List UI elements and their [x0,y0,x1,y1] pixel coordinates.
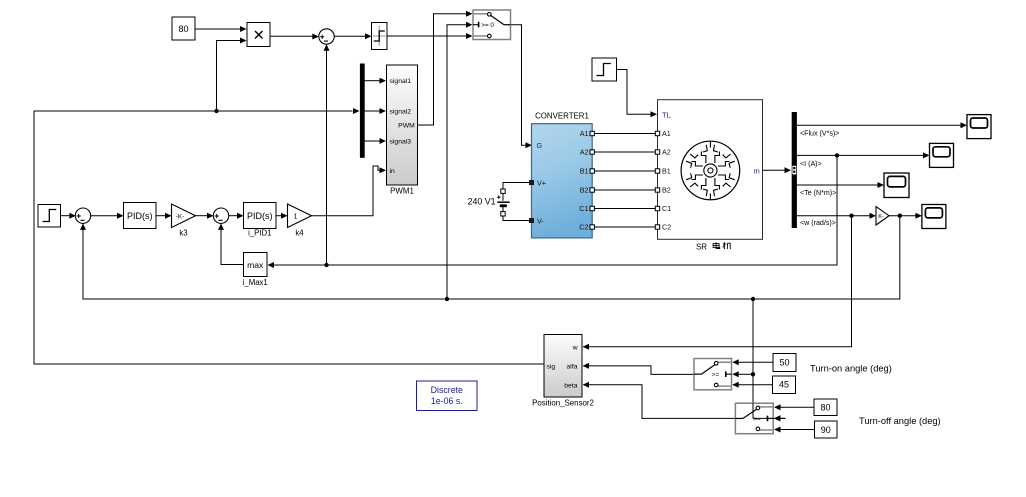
dc voltage source 240 V1 [468,189,510,216]
wire demux out y80.7 to PWM1 [365,78,386,84]
svg-text:A1: A1 [662,129,671,138]
svg-text:80: 80 [820,403,830,413]
svg-text:V-: V- [537,217,544,226]
wire battery plus to converter V+ [503,183,529,190]
svg-text:B2: B2 [580,186,589,195]
wire motor m to bus selector [763,167,792,173]
gain k3 [172,204,196,238]
svg-text:K-: K- [878,214,884,220]
svg-text:B1: B1 [662,167,671,176]
wire turn-on switch to sensor alfa [583,363,695,375]
annotation Turn-off angle [859,416,941,426]
svg-text:>=: >= [712,372,720,379]
svg-text:CONVERTER1: CONVERTER1 [535,112,589,121]
svg-text:alfa: alfa [567,363,578,370]
annotation Turn-on angle [810,363,892,373]
wire sum S2 to PID1 [91,213,124,219]
svg-text:B2: B2 [662,186,671,195]
wire step Step1 to sum S2 [61,213,76,219]
svg-text:beta: beta [564,382,577,389]
wire relay to switch SW0 input 3 [387,33,473,39]
label Te [800,189,836,197]
svg-text:w: w [572,345,578,352]
svg-text:45: 45 [779,380,789,390]
wire bus Te to scope [797,182,884,188]
relay R1 (hysteresis current control) [372,23,388,50]
wire sig feedback (sensor sig to demux/product) [34,108,544,364]
wire converter phase y152 [592,151,657,153]
wire battery minus to converter V- [503,216,529,221]
svg-text:Turn-off angle (deg): Turn-off angle (deg) [859,416,941,426]
motor SR (switched reluctance machine) [655,100,762,252]
svg-text:Turn-on angle (deg): Turn-on angle (deg) [810,363,892,373]
svg-text:max: max [247,260,264,270]
PID controller PID1 [124,203,157,229]
label w [800,219,836,227]
svg-text:i_Max1: i_Max1 [243,278,268,287]
junction threshold at turn-on switch [751,372,755,376]
junction w tap after gain [898,214,902,218]
label Flux [800,130,839,138]
wire bus I to scope [797,152,930,158]
switch turn-off angle selector [735,403,773,434]
wire constant 80 to product [196,26,247,32]
svg-text:TL: TL [662,110,671,119]
product block (x) [247,23,270,47]
switch turn-on angle selector [694,359,732,390]
svg-text:C2: C2 [579,223,588,232]
svg-text:C1: C1 [662,204,671,213]
PID controller i_PID1 [244,203,277,238]
wire demux out y141 to PWM1 [365,138,386,144]
svg-text:50: 50 [779,358,789,368]
wire speed feedback (after gain) long bottom line [80,216,900,299]
wire sig branch up to product input 2 [217,38,247,112]
svg-text:240 V1: 240 V1 [468,196,496,206]
constant 50 [773,354,796,372]
switch SW0 (sign selector >= 0) [473,10,511,40]
demux D1 (gate signals) [360,64,365,158]
svg-text:V+: V+ [537,179,546,188]
gain Kw (rad/s conversion) [876,207,889,225]
wire max to sum S3 [218,223,244,264]
wire PWM output to switch SW0 input 1 [418,11,473,125]
scope Te [884,173,909,198]
svg-text:G: G [537,141,543,150]
svg-text:>= 0: >= 0 [481,22,494,29]
svg-text:in: in [390,168,396,175]
svg-text:PID(s): PID(s) [247,211,273,221]
wire constant 80 to turn-off switch [774,404,814,410]
wire converter phase y171 [592,170,657,172]
wire stub into turn-on switch threshold input [732,371,753,377]
wire sign column up to switch SW0 middle input [447,22,473,299]
svg-text:PID(s): PID(s) [127,211,153,221]
svg-text:B1: B1 [580,167,589,176]
wire demux out y111 to PWM1 [365,108,386,114]
sum S1 (hysteresis comparator) [319,29,334,44]
scope Flux [967,115,991,139]
wire turn-off switch to sensor beta [583,382,736,419]
junction speed feedback to sign-switch column [445,297,449,301]
wire sum S3 to i_PID1 [229,213,244,219]
wire gain k3 to sum S3 [196,213,214,219]
annotation Discrete solver [417,381,478,411]
wire gain Kw to scope [889,213,922,219]
bus selector [792,112,797,228]
svg-text:signal3: signal3 [390,139,412,146]
wire converter phase y208.5 [592,208,657,210]
svg-text:PWM1: PWM1 [390,187,414,196]
svg-text:SR: SR [696,243,707,252]
wire bus Flux to scope [797,122,967,128]
wire converter phase y190 [592,189,657,191]
svg-text:sig: sig [547,363,556,370]
wire current branch up to hysteresis sum [324,44,330,265]
svg-text:<Te (N*m)>: <Te (N*m)> [800,189,836,197]
wire bus w to gain [797,213,876,219]
label I [800,160,822,168]
junction sig-to-product [214,109,218,113]
wire constant 45 to turn-on switch [732,382,772,388]
wire converter phase y227 [592,226,657,228]
junction I-branch [835,153,839,157]
wire PID1 to gain k3 [156,213,172,219]
svg-text:PWM: PWM [398,123,415,130]
svg-text:1: 1 [294,214,298,221]
wire constant 90 to turn-off switch [774,427,815,433]
wire stub turn-off switch threshold input [753,415,786,421]
sum S2 (speed error) [75,208,90,223]
svg-text:signal2: signal2 [390,109,412,116]
constant 80 (turn-off) [814,399,837,416]
wire converter phase y133.5 [592,133,657,135]
svg-text:1e-06 s.: 1e-06 s. [431,396,463,406]
constant 80 (current reference) [172,17,195,40]
svg-text:<w (rad/s)>: <w (rad/s)> [800,219,836,227]
scope w [922,205,946,229]
svg-text:i_PID1: i_PID1 [248,229,271,238]
svg-text:A1: A1 [580,129,589,138]
subsystem Position_Sensor2 [532,335,594,408]
svg-text:A2: A2 [662,148,671,157]
wire current feedback <I(A)> to max and hysteresis sum [268,155,838,268]
svg-text:Discrete: Discrete [431,385,463,395]
wire switch SW0 output to converter gate G [511,25,533,149]
wire sum S1 to relay [334,33,371,39]
constant 45 [773,376,796,394]
wire product to sum S1 [270,34,319,40]
svg-text:<I (A)>: <I (A)> [800,160,822,168]
max block i_Max1 [243,253,268,288]
wire threshold column down to angle switches [752,299,754,418]
svg-text:>=: >= [753,416,761,423]
step Step2 (load torque) [592,58,617,81]
svg-text:signal1: signal1 [390,78,412,85]
svg-text:-K-: -K- [176,213,184,220]
step Step1 (speed reference) [38,205,61,228]
constant 90 [815,421,838,438]
scope I [930,143,954,167]
junction w tap before gain [849,214,853,218]
svg-text:80: 80 [178,24,188,34]
sum S3 (current error) [213,208,228,223]
svg-text:C1: C1 [579,204,588,213]
svg-text:<Flux (V*s)>: <Flux (V*s)> [800,130,839,138]
svg-text:A2: A2 [580,148,589,157]
wire threshold overlay through turn-off switch [753,403,786,421]
converter CONVERTER1 (power converter) [529,112,594,238]
svg-text:Position_Sensor2: Position_Sensor2 [532,399,594,408]
wire i_PID1 to gain k4 [276,213,288,219]
subsystem PWM1 [387,65,418,196]
svg-text:k4: k4 [295,229,304,238]
svg-text:90: 90 [821,425,831,435]
junction current feedback to top sum [324,263,328,267]
wire gain k4 to PWM1 in port [312,166,387,216]
svg-text:k3: k3 [179,229,187,238]
wire step Step2 to motor TL [617,70,658,118]
junction speed feedback to switch threshold column [751,297,755,301]
gain k4 [288,204,312,238]
svg-text:m: m [754,166,760,175]
wire w tap to position sensor [583,216,852,350]
wire constant 50 to turn-on switch [732,359,773,365]
svg-text:C2: C2 [662,223,671,232]
